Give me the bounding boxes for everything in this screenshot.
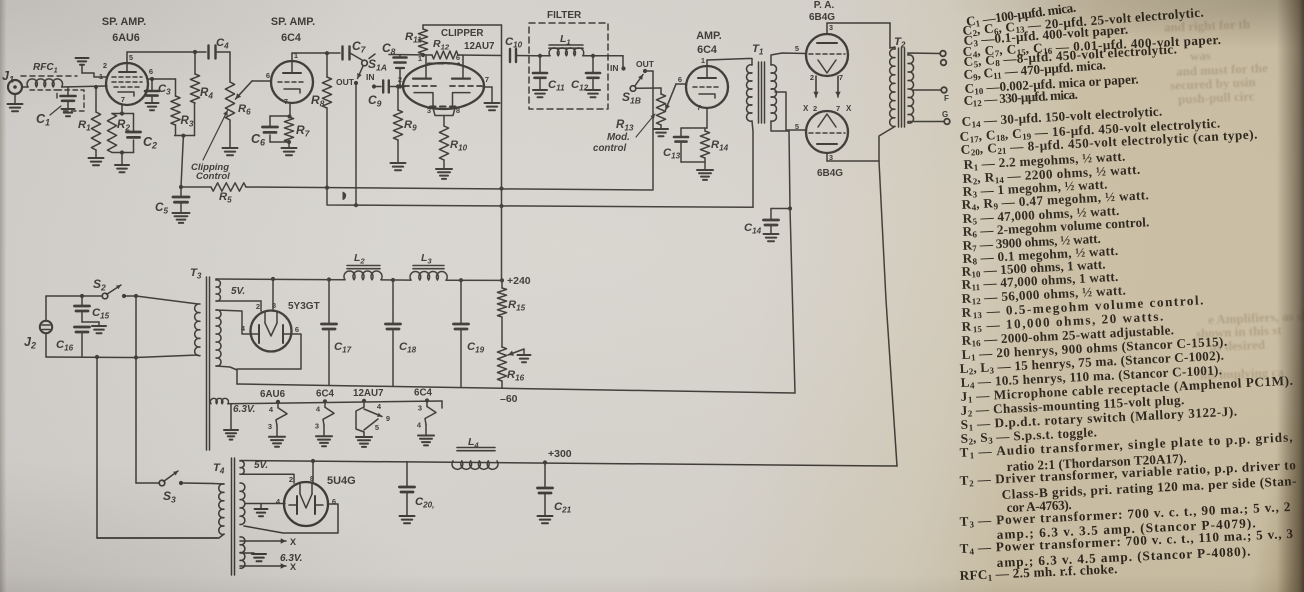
- capacitor C2: [122, 114, 157, 153]
- bus rail B: [327, 188, 753, 208]
- wire plate V1 to top rail: [127, 50, 206, 63]
- ground (R14): [697, 170, 713, 180]
- switch S3: [159, 471, 178, 505]
- inductor L2: [344, 252, 382, 280]
- capacitor C7: [343, 39, 367, 60]
- negative rail: [237, 384, 795, 393]
- switch S1A: [357, 54, 387, 79]
- T4 6.3V winding: [240, 537, 245, 568]
- bleed-through ghosts: [1164, 16, 1251, 36]
- clipper right vertical wire: [499, 25, 503, 280]
- wire pin8 to B+: [272, 279, 274, 311]
- heater 6AU6: [260, 389, 287, 447]
- output terminal 1: [940, 51, 946, 57]
- capacitor C5: [155, 187, 190, 223]
- bus rail A: [246, 186, 652, 191]
- ground (6.3V T4): [240, 553, 302, 564]
- throw contact OUT S1A: [354, 81, 358, 85]
- parts list: [965, 0, 1076, 29]
- resistor R8: [311, 51, 332, 188]
- R16 wiper arm: [508, 349, 524, 356]
- resistor R15: [497, 280, 525, 347]
- wire L3 to +240 node: [446, 278, 504, 282]
- capacitor C12: [571, 54, 623, 97]
- ink blot junction: [343, 192, 347, 201]
- wire J1 to 6AU6 grid: [22, 85, 107, 89]
- filter dashed box: [529, 23, 608, 109]
- neutral feed vertical: [97, 357, 218, 538]
- cathode network V2: capacitor C6: [251, 103, 292, 148]
- T4 5V winding: [240, 460, 268, 474]
- inductor L1: [535, 33, 584, 56]
- ground (V3 grid2): [485, 103, 500, 110]
- wiper arrow R6 from 6C4 grid: [236, 81, 272, 99]
- wire plate V6: [827, 153, 879, 161]
- switch S1B: [622, 75, 661, 106]
- label +300: [548, 448, 572, 460]
- label 5Y3GT: [288, 301, 320, 312]
- label IN (S1B): [610, 63, 619, 73]
- capacitor C3: [145, 79, 171, 110]
- clipping control pointer: [203, 111, 228, 161]
- ground (R16 wiper): [518, 355, 531, 362]
- grid 2 ground wire: [483, 87, 492, 102]
- label IN (S1A): [366, 72, 375, 82]
- capacitor C21: [538, 460, 572, 523]
- tube V3 12AU7: [398, 53, 489, 115]
- T3 6.3V winding: [210, 398, 255, 415]
- T3 primary winding: [195, 304, 200, 356]
- wire S3 wiring: [136, 482, 213, 485]
- label 6AU6 (V1): [112, 32, 140, 44]
- potentiometer R6: [225, 52, 251, 147]
- label P. A.: [814, 0, 835, 11]
- rf choke RFC1: [27, 62, 63, 87]
- ground (shield): [76, 58, 107, 77]
- tube V4 6C4: [678, 56, 728, 112]
- label CLIPPER: [441, 28, 483, 39]
- capacitor C13: [663, 128, 707, 162]
- ground (R9): [391, 163, 406, 170]
- wire plate V5 to T2: [827, 23, 890, 48]
- wire R3 bottom to C5 node: [176, 125, 186, 187]
- capacitor C4: [209, 37, 231, 59]
- heater 12AU7: [353, 388, 390, 447]
- resistor R4: [175, 52, 214, 136]
- heater 6C4: [414, 388, 436, 446]
- wire plate V4 to T1: [707, 59, 748, 67]
- transformer T3: [190, 267, 210, 450]
- wire plate pin6 loop: [237, 334, 301, 369]
- wire PA B+ vertical: [879, 161, 897, 466]
- wire plate V2: [292, 53, 340, 61]
- filament lead X bottom: [240, 562, 296, 572]
- label AMP.: [696, 30, 722, 42]
- output terminal F: [941, 87, 949, 103]
- T4 primary winding: [97, 484, 224, 539]
- heater 6C4: [315, 388, 335, 446]
- wire T4 5V bottom to pin2: [240, 474, 294, 483]
- potentiometer R16: [497, 347, 524, 388]
- label 6C4 (V2): [281, 32, 301, 44]
- wire HV top to plate pin4: [216, 310, 250, 334]
- wiper wire R13 to grid V4: [665, 84, 686, 110]
- capacitor C9: [368, 81, 405, 109]
- ground (R7): [282, 148, 297, 155]
- resistor R1: [78, 87, 104, 165]
- wire HV to plate pin4: [246, 503, 285, 505]
- resistor R11: [405, 25, 428, 54]
- resistor R12: [432, 38, 458, 59]
- throw contact OUT S1B: [643, 69, 647, 73]
- capacitor C18: [386, 280, 417, 386]
- resistor R2: [107, 105, 130, 153]
- label OUT (S1A): [336, 77, 355, 87]
- resistor R7: [284, 117, 310, 148]
- label SP. AMP. (V1): [102, 16, 146, 28]
- wire T1 bottom to C14 node: [789, 131, 795, 393]
- T3 HV winding: [216, 310, 221, 366]
- label Mod. control: [593, 132, 630, 154]
- capacitor C10: [505, 36, 535, 62]
- T1 secondary winding: [771, 53, 806, 131]
- hot feed vertical: [134, 296, 138, 483]
- cathode node V4: [706, 108, 708, 128]
- wire S1A out down to rail B: [355, 83, 357, 205]
- tube V6 6B4G lower: [795, 111, 848, 162]
- jack J1: [2, 69, 23, 111]
- filament lead X top: [240, 537, 296, 547]
- label FILTER: [547, 10, 582, 21]
- transformer T1: [752, 43, 765, 123]
- potentiometer R13: [616, 88, 666, 133]
- resistor R10: [439, 126, 467, 168]
- label 6B4G lower: [817, 168, 843, 179]
- capacitor C17: [322, 280, 352, 386]
- label 12AU7: [464, 41, 495, 52]
- wire HV bottom to rail: [216, 366, 237, 384]
- tube V7 5Y3GT: [241, 301, 299, 352]
- output terminal G: [942, 110, 950, 124]
- transformer T2: [894, 36, 906, 127]
- wire T3 5V bottom to pin2: [216, 301, 261, 311]
- ground (6.3V tap): [224, 404, 238, 440]
- wire plate pin6 loop: [244, 504, 338, 533]
- wire S2 to T3: [126, 294, 198, 304]
- resistor R9: [393, 84, 417, 162]
- +300 line: [240, 459, 897, 466]
- heater bus wire: [228, 401, 442, 408]
- switch S2: [93, 277, 121, 299]
- label -60: [500, 393, 518, 405]
- ground (R2 C2): [115, 150, 129, 172]
- capacitor C11: [533, 54, 565, 97]
- resistor R3: [171, 79, 194, 129]
- plug J2: [24, 321, 52, 351]
- wire screen V1 node: [148, 77, 176, 81]
- throw contact S2: [122, 294, 126, 298]
- ground (C15 C16): [82, 322, 106, 333]
- label OUT (S1B): [636, 59, 655, 69]
- filament arrows X: [803, 76, 852, 113]
- transformer T4: [213, 458, 235, 575]
- wire neutral to T3 primary: [136, 355, 198, 358]
- throw contact S3: [179, 481, 183, 485]
- T3 5V winding: [216, 280, 245, 301]
- wire L2 to L3: [381, 278, 411, 282]
- wire plate V3 to C10: [458, 54, 502, 57]
- throw contact IN S1B: [621, 56, 625, 71]
- inductor L3: [410, 252, 447, 280]
- wire J2 bottom: [46, 333, 136, 359]
- wire S1B out node: [645, 71, 653, 190]
- T1 primary winding: [747, 59, 753, 208]
- label +240: [507, 275, 531, 287]
- tube V1 6AU6: [99, 53, 153, 105]
- T1 secondary tap wire: [775, 92, 806, 130]
- resistor R5: [181, 183, 246, 205]
- wire W1 plate node: [389, 53, 432, 57]
- cathode join wires V3: [433, 108, 455, 126]
- ground (R10): [436, 169, 452, 179]
- tube V8 5U4G: [276, 474, 336, 526]
- capacitor C20: [400, 462, 435, 524]
- junction C14: [788, 206, 792, 210]
- throw contact IN S1A: [372, 84, 376, 88]
- capacitor C1: [36, 87, 76, 128]
- resistor R14: [700, 128, 728, 169]
- label 6C4 (V4): [697, 44, 717, 56]
- label Clipping Control: [191, 162, 230, 182]
- ground (T4 HV CT): [255, 504, 268, 517]
- ground (R6): [223, 148, 238, 155]
- wire pin8 5U4G: [312, 461, 314, 483]
- junction C5: [179, 185, 183, 189]
- wire J2 top to S2: [46, 296, 103, 321]
- capacitor C19: [454, 280, 485, 387]
- capacitor C14: [744, 209, 790, 242]
- tube V2 6C4: [266, 51, 313, 106]
- label 5U4G: [327, 475, 356, 487]
- wire T3 5V top to B+: [216, 277, 345, 282]
- output terminal 2: [941, 60, 947, 66]
- inductor L4: [452, 436, 498, 469]
- tube V5 6B4G upper: [795, 23, 848, 82]
- label SP. AMP. (V2): [271, 16, 315, 28]
- T2 tap wire: [913, 89, 942, 91]
- capacitor C16: [56, 327, 90, 357]
- label 6B4G upper: [809, 12, 835, 23]
- dashed shield line: [21, 75, 77, 77]
- capacitor C15: [75, 294, 110, 322]
- T2 secondary winding: [908, 53, 944, 123]
- capacitor C8: [382, 41, 407, 89]
- ground (R13): [654, 129, 668, 136]
- T4 HV winding: [240, 483, 245, 525]
- T2 primary winding: [879, 47, 895, 161]
- mod control pointer: [636, 114, 655, 137]
- dashed box around C1: [30, 90, 84, 111]
- clipper feed rail: [423, 24, 502, 26]
